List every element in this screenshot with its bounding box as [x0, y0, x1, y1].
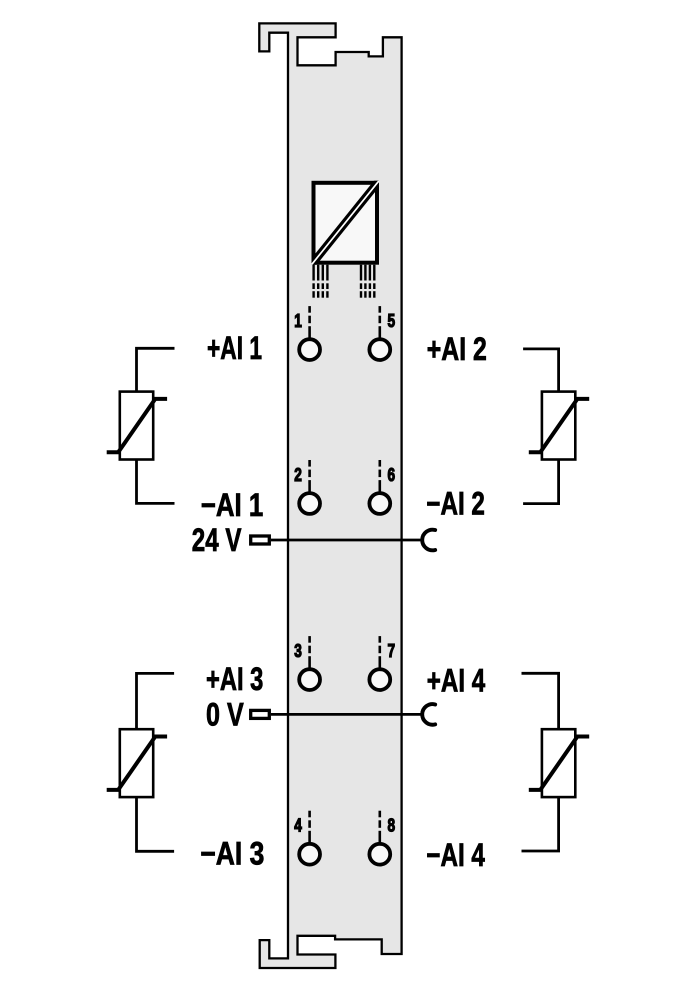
sensor RTD4 wires (channel 4, right bottom) — [522, 673, 559, 851]
U1 pins right group — [361, 265, 374, 298]
sensor RTD1 wires (channel 1, left top) — [137, 348, 175, 503]
svg-text:7: 7 — [388, 641, 396, 661]
0 V feed-through rectangle — [251, 710, 270, 718]
svg-text:−AI 2: −AI 2 — [426, 486, 485, 522]
svg-text:+AI 1: +AI 1 — [207, 330, 262, 366]
terminal circle 6 — [369, 493, 390, 514]
svg-text:−AI 1: −AI 1 — [201, 487, 263, 523]
svg-text:+AI 3: +AI 3 — [206, 661, 263, 697]
sensor RTD3 wires (channel 3, left bottom) — [137, 673, 175, 851]
sensor RTD1 body — [120, 392, 153, 460]
sensor RTD4 diagonal — [529, 737, 589, 790]
svg-text:5: 5 — [388, 311, 396, 331]
svg-text:0 V: 0 V — [206, 696, 244, 732]
24 V jumper contact arc — [422, 530, 435, 551]
svg-text:−AI 4: −AI 4 — [426, 837, 485, 873]
sensor RTD2 diagonal — [529, 399, 589, 452]
stub terminal 6 — [378, 460, 381, 494]
svg-text:2: 2 — [294, 465, 302, 485]
svg-text:24 V: 24 V — [192, 522, 242, 558]
stub terminal 7 — [378, 636, 381, 670]
stub terminal 2 — [308, 460, 311, 494]
U1 pins left group — [314, 265, 328, 298]
0 V jumper contact arc — [422, 704, 435, 725]
svg-text:1: 1 — [294, 311, 302, 331]
svg-text:8: 8 — [388, 816, 396, 836]
svg-text:−AI 3: −AI 3 — [200, 836, 264, 872]
terminal circle 5 — [369, 339, 390, 360]
terminal circle 1 — [299, 339, 320, 360]
sensor RTD3 diagonal — [107, 737, 167, 790]
terminal stubs (dashed leads) — [310, 306, 380, 844]
sensor RTD4 body — [542, 729, 575, 797]
svg-text:+AI 2: +AI 2 — [427, 331, 487, 367]
stub terminal 5 — [378, 306, 381, 340]
stub terminal 1 — [308, 306, 311, 340]
svg-text:3: 3 — [294, 641, 302, 661]
terminal circle 4 — [299, 844, 320, 865]
module body outline (WAGO I/O module silhouette) — [259, 23, 401, 968]
stub terminal 4 — [308, 811, 311, 845]
svg-text:+AI 4: +AI 4 — [427, 663, 486, 699]
0 V power line — [271, 713, 422, 716]
terminal circle 3 — [299, 669, 320, 690]
24 V power line — [271, 539, 422, 542]
terminal circle 7 — [369, 669, 390, 690]
sensor RTD1 diagonal — [107, 399, 167, 452]
24 V feed-through rectangle — [251, 536, 270, 544]
terminal circle 8 — [369, 844, 390, 865]
terminal circle 2 — [299, 493, 320, 514]
sensor RTD2 body — [542, 392, 575, 460]
stub terminal 3 — [308, 636, 311, 670]
sensor RTD2 wires (channel 2, right top) — [523, 349, 559, 504]
svg-text:4: 4 — [294, 816, 302, 836]
electronics A/D converter box U1 — [311, 180, 381, 267]
sensor RTD3 body — [120, 729, 153, 797]
svg-text:6: 6 — [388, 465, 396, 485]
stub terminal 8 — [378, 811, 381, 845]
